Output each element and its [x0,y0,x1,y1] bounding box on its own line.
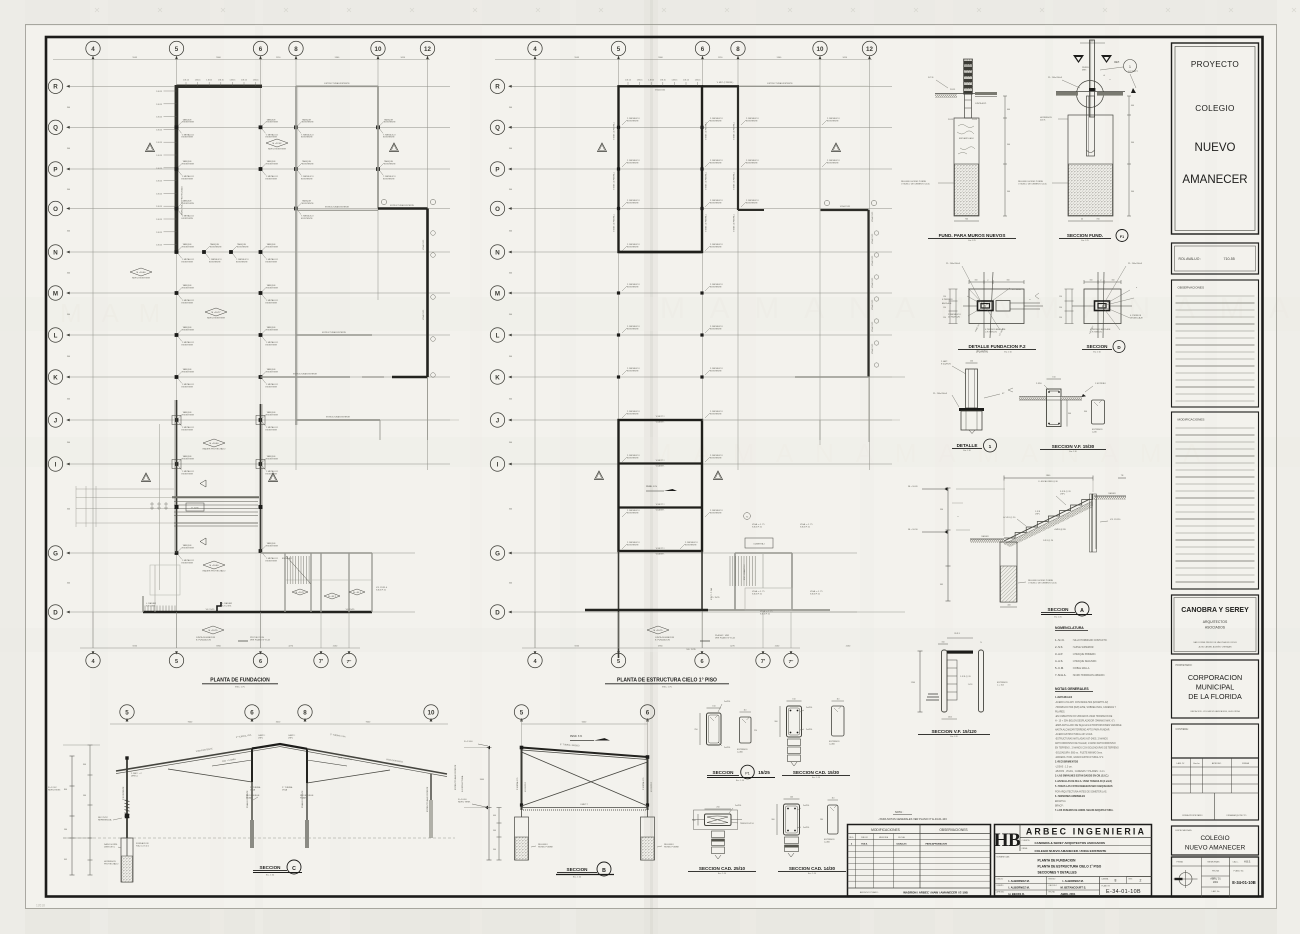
plan1: stair room labels [292,589,308,595]
svg-text:O: O [495,206,500,213]
svg-text:7'': 7'' [789,659,794,664]
plan1: stair room block bottom right [143,611,372,613]
svg-text:SECCION CAD. 25/10: SECCION CAD. 25/10 [699,866,746,871]
svg-text:150: 150 [943,307,946,309]
svg-text:: SILLO HORMIGON CONTACTO.: : SILLO HORMIGON CONTACTO. [1072,639,1108,642]
svg-text:12618: 12618 [36,904,45,908]
plan 2 (estructura cielo): row bubbles left [490,79,504,93]
svg-text:ESC. 1:75: ESC. 1:75 [235,687,245,689]
svg-text:OBSERVACIONES: OBSERVACIONES [1178,286,1205,290]
svg-text:V.MET.T: V.MET.T [580,804,588,806]
svg-text:EXISTENTE: EXISTENTE [182,261,194,263]
svg-text:1: 1 [1129,65,1131,69]
detail: seccion VF 15/30 [1019,377,1106,434]
svg-text:A: A [1080,608,1084,614]
svg-text:2xØ10: 2xØ10 [724,701,731,703]
svg-text:NUEVO: NUEVO [1195,142,1236,154]
plan2: top extension R from 6 to 8 [702,85,739,87]
svg-text:N: N [53,249,58,256]
svg-text:SECCION CAD. 14/30: SECCION CAD. 14/30 [789,866,836,871]
svg-text:EXISTENTE: EXISTENTE [384,163,396,165]
svg-text:REG.: REG. [849,837,854,839]
svg-text:VIGA MET.: VIGA MET. [656,465,665,468]
svg-text:ESTRUCTURA EXISTENTE: ESTRUCTURA EXISTENTE [324,82,350,85]
svg-text:I: I [497,461,499,468]
plan1: level diamonds [266,139,288,147]
svg-text:4.-EN MALLAS DE M.H.A. USAR TR: 4.-EN MALLAS DE M.H.A. USAR TRABAS A8 (4… [1055,780,1112,783]
svg-text:N +10.75: N +10.75 [209,630,219,632]
svg-text:1200: 1200 [911,682,915,684]
svg-text:1.-MATERIALES: 1.-MATERIALES [1055,696,1073,699]
svg-text:960: 960 [493,849,496,851]
svg-text:SECCION: SECCION [713,770,735,775]
svg-text:160: 160 [1112,280,1115,282]
svg-text:-HORMIGON H20 (R28) 225E, SOBR: -HORMIGON H20 (R28) 225E, SOBRELOSAS, CA… [1055,706,1117,709]
svg-text:ROL AVALUO :: ROL AVALUO : [1179,257,1202,261]
svg-text:P1: P1 [745,771,749,775]
svg-text:EXISTENTE: EXISTENTE [182,562,194,564]
svg-text:28 Ø 8: 28 Ø 8 [954,633,959,635]
svg-text:V MET.T.I: V MET.T.I [656,504,665,506]
svg-text:E. FUNDACION: E. FUNDACION [196,638,211,641]
svg-text:560: 560 [64,829,67,831]
svg-text:EXISTENTE: EXISTENTE [383,137,395,139]
svg-text:M A M A N A M A M A N A M A: M A M A N A M A M A N A M A [660,292,1298,325]
svg-text:H - 10 + 30% BOLON DESPLAZAD: H - 10 + 30% BOLON DESPLAZADOR (TAMANO M… [1055,719,1115,722]
svg-text:1.M.15: 1.M.15 [660,79,666,81]
svg-text:300: 300 [509,356,512,358]
svg-text:300: 300 [67,399,70,401]
svg-text:1.M.15: 1.M.15 [156,206,162,208]
svg-text:V. MET. (2 PERFIL): V. MET. (2 PERFIL) [734,172,736,190]
svg-text:PARA APROBACION: PARA APROBACION [926,842,948,845]
svg-text:900: 900 [1131,142,1134,144]
svg-text:VIGA: VIGA [282,788,288,791]
svg-text:160: 160 [975,280,978,282]
svg-text:150: 150 [792,699,795,701]
svg-text:300: 300 [509,230,512,232]
svg-text:PROYECTO: PROYECTO [1191,60,1239,69]
svg-text:EXISTENTE: EXISTENTE [267,122,279,124]
svg-text:EMPLANTILLADO: EMPLANTILLADO [959,137,974,140]
svg-text:Esc. 1:10: Esc. 1:10 [808,873,816,875]
svg-text:N +12.02: N +12.02 [273,143,283,145]
svg-text:SAN COSME PEDRO DE VALDIVIA: SAN COSME PEDRO DE VALDIVIA 020 OF.503 [1193,641,1237,644]
svg-text:10: 10 [817,46,824,53]
svg-text:2615: 2615 [948,717,952,719]
svg-text:COLEGIO: COLEGIO [1195,104,1234,113]
svg-text:Esc 1:10: Esc 1:10 [1093,352,1100,354]
svg-text:6: 6 [250,709,254,716]
detail: seccion A (stair section) [908,475,1126,607]
svg-text:905: 905 [64,859,67,861]
svg-text:2xØ10: 2xØ10 [803,805,810,807]
svg-text:5: 5 [175,659,178,665]
svg-text:EXISTENTE: EXISTENTE [384,122,396,124]
svg-text:A-930 CANSEL ACN/ÑIO CHESAA: A-930 CANSEL ACN/ÑIO CHESAAN [1199,646,1232,649]
svg-text:L.H.T/NK/LN: L.H.T/NK/LN [985,331,997,333]
small section P1 15/25 [694,701,757,753]
svg-text:EXISTENTE: EXISTENTE [266,344,278,346]
svg-text:SECCION: SECCION [567,867,589,872]
svg-text:300: 300 [67,148,70,150]
svg-text:1 Ø 8 @ 20: 1 Ø 8 @ 20 [1043,540,1054,542]
svg-text:7': 7' [319,659,324,665]
svg-text:150: 150 [1052,377,1055,379]
svg-text:ARQUITECTOS: ARQUITECTOS [1203,620,1228,624]
svg-text:EXISTENTE: EXISTENTE [183,329,195,331]
svg-text:EXISTENTE: EXISTENTE [627,286,639,288]
svg-text:ABRIL '01: ABRIL '01 [1210,878,1221,881]
svg-text:EXISTENTE: EXISTENTE [183,547,195,549]
svg-text:EXISTENTE: EXISTENTE [710,202,722,204]
svg-text:1.M.15: 1.M.15 [695,79,701,81]
svg-text:N +10.60: N +10.60 [137,272,147,274]
svg-text:EXISTENTE: EXISTENTE [267,458,279,460]
svg-text:EXISTENTE: EXISTENTE [182,302,194,304]
svg-text:P: P [53,166,57,173]
svg-text:ESC. 1:75: ESC. 1:75 [662,687,672,689]
plan1: small flag triangles [200,480,206,487]
svg-text:800: 800 [64,789,67,791]
svg-text:5: 5 [617,46,621,53]
svg-text:-EN CIMIENTOS NO UBICADOS USAR: -EN CIMIENTOS NO UBICADOS USAR HORMIGON … [1055,715,1113,718]
svg-text:1.M.15: 1.M.15 [183,79,189,81]
svg-text:FIRMA: FIRMA [1177,861,1184,864]
svg-text:965: 965 [940,584,943,586]
svg-text:VIGA 15/35: VIGA 15/35 [871,299,874,310]
svg-text:PROYECTADO: PROYECTADO [104,862,119,865]
svg-text:B: B [602,868,606,874]
svg-text:ESTRUCTURA EXISTENTE: ESTRUCTURA EXISTENTE [325,206,350,209]
svg-text:EXISTENTE: EXISTENTE [183,371,195,373]
svg-text:300: 300 [509,583,512,585]
svg-text:EXISTENTE: EXISTENTE [710,512,722,514]
plan1: helper line left of grid5 (J to D) [159,424,161,590]
svg-text:EXISTENTE: EXISTENTE [183,203,195,205]
svg-text:ABRIL 2001: ABRIL 2001 [1061,892,1076,896]
svg-text:ARCHIVO PLANO :: ARCHIVO PLANO : [860,891,880,894]
svg-text:EXISTENTE: EXISTENTE [746,162,758,164]
plan1: existing structure thin walls right side [295,86,297,425]
svg-text:S.B.V.F 15: S.B.V.F 15 [760,613,771,615]
svg-text:S.B.V.F 15: S.B.V.F 15 [810,593,821,595]
svg-text:300: 300 [67,509,70,511]
svg-text:300: 300 [509,509,512,511]
svg-text:-LOSAS : 1.5 cm.: -LOSAS : 1.5 cm. [1055,766,1073,769]
svg-text:EXISTENTE: EXISTENTE [266,429,278,431]
svg-text:150: 150 [1059,317,1062,319]
svg-text:Esc 1:25: Esc 1:25 [1081,240,1088,242]
svg-text:APROBO: APROBO [997,891,1005,894]
title column: observaciones box [1172,280,1259,407]
svg-text:MEMORIA: MEMORIA [879,836,889,839]
plan2: heavy rect R-N between 5 and 6 [619,86,703,252]
svg-text:EXISTENTE: EXISTENTE [183,458,195,460]
svg-text:20/15: 20/15 [948,119,954,121]
title column: bottom data box [1172,857,1259,897]
svg-text:6: 6 [259,659,262,665]
svg-text:PILAR: PILAR [246,796,253,799]
svg-text:-SOLDADURA: E60-xx , FILETE M: -SOLDADURA: E60-xx , FILETE MINIMO 3mm. [1055,751,1103,754]
svg-text:8: 8 [736,46,740,53]
svg-text:Esc. 1:10: Esc. 1:10 [718,873,726,875]
svg-text:PEND. 8 %: PEND. 8 % [570,735,583,738]
svg-text:L=460: L=460 [824,841,831,843]
svg-text:EXISTENTE: EXISTENTE [685,544,697,546]
svg-text:Esc 1:25: Esc 1:25 [968,240,975,242]
svg-text:DET.: DET. [1114,61,1120,64]
svg-text:EXISTENTE: EXISTENTE [710,370,722,372]
svg-text:N +10.75: N +10.75 [654,630,664,632]
svg-text:EXISTENTE: EXISTENTE [236,261,248,263]
svg-text:PLANO No: PLANO No [1234,870,1245,873]
svg-text:EDIGITUA: EDIGITUA [1055,800,1066,803]
svg-text:(TIP): (TIP) [1060,493,1065,495]
svg-text:EXISTENTE: EXISTENTE [182,218,194,220]
svg-text:FIRMA: FIRMA [1242,762,1249,765]
svg-text:Esc 1:20: Esc 1:20 [950,736,957,738]
title column: rol avaluo box [1172,243,1259,274]
svg-text:(IPN/L): (IPN/L) [131,775,138,777]
faint vertical paper streaks [90,0,108,934]
svg-text:1: 1 [989,444,992,450]
svg-text:WADRON \ ARBEC \ NAW \ AMANECE: WADRON \ ARBEC \ NAW \ AMANECER \ E-10B [903,891,968,895]
plan2: level diamond [647,626,669,634]
svg-text:1.M.15: 1.M.15 [156,245,162,247]
svg-text:EXISTENTE: EXISTENTE [266,302,278,304]
svg-text:L=460: L=460 [737,751,744,753]
plan2: hook at K row [795,376,869,378]
svg-text:VIGA MET.: VIGA MET. [656,421,665,424]
svg-text:SECCION: SECCION [1048,607,1070,612]
svg-text:EXISTENTE: EXISTENTE [627,512,639,514]
svg-text:V.F. 15/120: V.F. 15/120 [1110,519,1121,521]
svg-text:7': 7' [761,659,766,665]
svg-text:220: 220 [754,730,757,732]
svg-text:EXISTENTE: EXISTENTE [237,246,249,248]
svg-text:VIGA 15/35: VIGA 15/35 [871,321,874,332]
svg-text:VIGA 15/35: VIGA 15/35 [871,343,874,354]
svg-text:: ATRAQUE PRIMERO.: : ATRAQUE PRIMERO. [1072,653,1096,656]
svg-text:8: 8 [294,46,298,53]
svg-text:EXISTENTE: EXISTENTE [627,246,639,248]
svg-text:EXISTENTE: EXISTENTE [627,328,639,330]
svg-text:EXISTENTE: EXISTENTE [627,544,639,546]
svg-text:EXISTENTE: EXISTENTE [710,246,722,248]
plan1: beam center squares [175,505,179,509]
svg-text:5.-C.M.: 5.-C.M. [1055,666,1064,670]
svg-text:700: 700 [1096,219,1099,221]
svg-text:300: 300 [509,273,512,275]
svg-text:N +10.60: N +10.60 [210,565,220,567]
svg-text:OBSERVACIONES: OBSERVACIONES [939,828,968,832]
svg-text:1.M.15: 1.M.15 [156,181,162,183]
svg-text:SECCION V.F. 15/120: SECCION V.F. 15/120 [931,729,976,734]
plan 1 (fundacion): row bubbles left [48,79,62,93]
svg-text:5: 5 [617,659,620,665]
svg-text:300: 300 [1068,413,1071,415]
svg-text:300: 300 [509,189,512,191]
svg-text:1.M.15: 1.M.15 [156,155,162,157]
svg-text:ESTRUCTURA EXISTENTE: ESTRUCTURA EXISTENTE [767,82,793,85]
plan2: annex stair hatch [729,556,731,586]
plan1: lower extension walls left of D [142,596,144,612]
svg-text:EXISTENTE: EXISTENTE [267,287,279,289]
svg-text:300: 300 [509,107,512,109]
svg-text:S.E. 15/35: S.E. 15/35 [686,649,696,651]
svg-text:BRACP :: BRACP : [1055,805,1064,808]
svg-text:200 K: 200 K [1040,119,1046,121]
plan1: stair hatch [287,556,289,584]
svg-text:5: 5 [125,709,129,716]
svg-text:NOMBRE LAM.: NOMBRE LAM. [997,856,1011,859]
svg-text:S.T.C NIV.: S.T.C NIV. [222,605,232,607]
svg-text:HORM. POBRE: HORM. POBRE [664,846,679,848]
svg-text:EXISTENTE: EXISTENTE [209,261,221,263]
svg-text:EXISTENTE: EXISTENTE [710,286,722,288]
svg-text:590: 590 [940,509,943,511]
detail: fund para muros nuevos [901,59,1010,221]
svg-text:V. MET. (2 PERFIL): V. MET. (2 PERFIL) [614,214,616,232]
plan1: vertical hatched wall on grid 5, R to N [175,85,179,254]
svg-text:FUND. PARA MUROS NUEVOS: FUND. PARA MUROS NUEVOS [939,233,1006,238]
svg-text:2: 2 [1140,879,1142,883]
svg-text:1.M.15: 1.M.15 [156,219,162,221]
svg-text:EXISTENTE: EXISTENTE [183,122,195,124]
svg-text:I. ALBORNOZ M.: I. ALBORNOZ M. [1063,879,1084,883]
svg-text:LAM. No: LAM. No [1212,890,1221,893]
svg-text:LAMINA: LAMINA [1102,877,1109,880]
svg-text:N +10.77: N +10.77 [212,312,222,314]
svg-text:RADIER: RADIER [981,535,989,538]
svg-text:2 Ø10: 2 Ø10 [1036,383,1043,385]
svg-text:5: 5 [175,46,179,53]
svg-text:EXISTENTE: EXISTENTE [710,413,722,415]
plan2: existing struct lines top right [739,85,820,87]
svg-text:1.M.15: 1.M.15 [253,79,259,81]
svg-text:300: 300 [67,442,70,444]
svg-text:300: 300 [771,819,774,821]
plan2: left vertical continues G to D [618,551,620,658]
svg-text:G: G [53,550,58,557]
svg-text:COLEGIO: COLEGIO [1200,835,1229,842]
svg-text:1 Ø 8: 1 Ø 8 [968,684,973,686]
plan2: right annex rooms G-D [734,553,736,610]
svg-text:K: K [53,374,58,381]
svg-text:M A M: M A M [60,298,167,328]
svg-text:ESTRUCTURA EXISTENTE: ESTRUCTURA EXISTENTE [326,416,351,419]
svg-text:960: 960 [493,830,496,832]
svg-text:SECCION CAD. 15/30: SECCION CAD. 15/30 [793,770,840,775]
detail: seccion VF 15/120 [911,633,1008,719]
svg-text:Esc 1:10: Esc 1:10 [1004,352,1011,354]
svg-text:EXISTENTE: EXISTENTE [183,163,195,165]
svg-text:V.F. 15/35: V.F. 15/35 [206,609,216,611]
title column: contiene box [1172,724,1259,758]
svg-text:Esc 1:10: Esc 1:10 [1069,451,1076,453]
svg-text:250: 250 [716,807,719,809]
svg-text:EXISTENTE: EXISTENTE [183,414,195,416]
svg-text:D: D [495,609,500,616]
svg-text:NIVEL EXISTENTE: NIVEL EXISTENTE [207,318,226,320]
notes: nomenclatura [1055,626,1108,677]
svg-text:ANTICORROSIVO DE TALLER, 1 MAN: ANTICORROSIVO DE TALLER, 1 MANO ANTICORR… [1055,742,1116,745]
svg-text:EXISTENTE: EXISTENTE [746,120,758,122]
svg-text:100: 100 [692,820,695,822]
svg-text:SECCION: SECCION [1087,344,1109,349]
svg-text:PL. 200x200x8: PL. 200x200x8 [1048,77,1063,79]
plan1: existing walls rows L/K right [296,334,372,336]
svg-text:-MUROS , VIGAS , CADENAS Y PIL: -MUROS , VIGAS , CADENAS Y PILARES : 2 c… [1055,770,1106,773]
svg-text:1.M.15: 1.M.15 [156,91,162,93]
svg-text:(VER DET.): (VER DET.) [104,846,115,848]
svg-text:P. METALICO: P. METALICO [516,777,519,790]
svg-text:RADIER PROYECTADO: RADIER PROYECTADO [203,570,226,573]
svg-text:EXISTENTE: EXISTENTE [267,246,279,248]
svg-text:REVISO: REVISO [1049,879,1056,881]
svg-text:1.M.15: 1.M.15 [218,79,224,81]
plan2: D row dark then gray [585,609,708,611]
svg-text:110: 110 [832,798,835,800]
svg-text:EXISTENTE: EXISTENTE [710,162,722,164]
svg-text:EXISTENTE: EXISTENTE [301,137,313,139]
title column: propietario box [1172,660,1259,718]
svg-text:UBICACION : VOLCAN VILLARICA: UBICACION : VOLCAN VILLARICA 8690, LA FL… [1190,710,1240,713]
svg-text:150: 150 [970,361,973,363]
svg-text:ARBEC INGENIERIA: ARBEC INGENIERIA [1026,827,1146,837]
svg-text:300: 300 [774,721,777,723]
svg-text:APROBO: APROBO [1212,762,1222,765]
svg-text:E-34-01-10B: E-34-01-10B [1232,880,1255,885]
svg-text:EXISTENTE: EXISTENTE [266,560,278,562]
svg-text:CLIENTE:: CLIENTE: [1022,840,1031,842]
svg-text:EXISTENTE: EXISTENTE [182,137,194,139]
svg-text:EXISTENTE: EXISTENTE [627,162,639,164]
svg-text:EXISTENTE: EXISTENTE [182,344,194,346]
svg-text:8: 8 [303,709,307,716]
svg-text:J: J [54,417,58,424]
svg-text:Esc 1:25: Esc 1:25 [1054,617,1061,619]
seccion B : braced frame [458,705,679,860]
svg-text:CALC.: CALC. [1233,861,1239,864]
svg-text:MUNICIPAL: MUNICIPAL [1196,683,1235,692]
svg-text:L: L [54,332,58,339]
svg-text:Q: Q [53,125,58,132]
svg-text:1.M.15: 1.M.15 [648,79,654,81]
svg-text:Q: Q [495,125,500,132]
svg-text:P. METALICO: P. METALICO [642,777,645,790]
svg-text:(TIP): (TIP) [1035,513,1040,515]
svg-text:REV.: REV. [1129,878,1134,880]
svg-text:L: L [496,332,500,339]
svg-text:REFERENCIA: REFERENCIA [98,818,112,821]
plan1: tick hatch above D line left part [144,606,146,612]
svg-text:6: 6 [646,709,650,716]
svg-text:600: 600 [1007,109,1010,111]
svg-text:EXISTENTE: EXISTENTE [746,202,758,204]
plan 1 (fundacion): grid lines [92,56,94,648]
svg-text:E. FUNDACION: E. FUNDACION [655,638,670,641]
detail: detalle fundacion F2 (planta) [942,263,1043,338]
svg-text:2xØ10: 2xØ10 [735,805,742,807]
svg-text:-ESTRUCTURAS ANTILADAS A37-24E: -ESTRUCTURAS ANTILADAS A37-24ES. 2 MANOS [1055,738,1108,741]
svg-text:EXISTENTE: EXISTENTE [266,137,278,139]
svg-text:- PARA NOTAS GENERALES VER PLA: - PARA NOTAS GENERALES VER PLANO N° E-34… [878,817,947,821]
svg-text:(PLANTA): (PLANTA) [976,350,988,354]
svg-text:150: 150 [943,296,946,298]
svg-text:N +10.77: N +10.77 [296,592,306,594]
